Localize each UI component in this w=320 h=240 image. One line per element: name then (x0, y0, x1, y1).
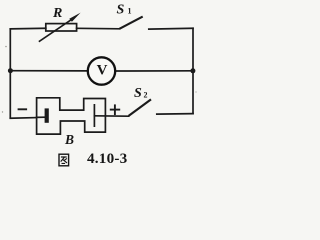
svg-text:4.10-3: 4.10-3 (87, 150, 128, 167)
paper background (0, 0, 200, 170)
rheostat arrow (39, 13, 81, 42)
wire top-middle segment (resistor to S1) (77, 27, 120, 30)
battery minus terminal label (18, 108, 28, 110)
wire cell1 internal stub (37, 116, 45, 118)
cell 1 short thick plate (45, 108, 49, 122)
wire cell2 plate to S2 (95, 115, 129, 117)
wire middle branch right (voltmeter to right rail) (115, 70, 193, 72)
switch S1 blade (119, 17, 142, 29)
node right junction (190, 68, 195, 73)
wire right vertical (192, 28, 194, 113)
battery plus terminal label (110, 104, 120, 115)
svg-text:R: R (52, 6, 62, 21)
resistor R (rheostat box) (46, 24, 77, 31)
svg-text:S: S (117, 2, 125, 17)
faint scan speckles (2, 46, 197, 113)
svg-text:S: S (134, 86, 142, 101)
svg-text:2: 2 (144, 90, 148, 99)
wire top-left segment (10, 27, 46, 30)
wire middle branch left (to voltmeter) (10, 70, 87, 72)
svg-text:B: B (64, 132, 74, 147)
wire top-right segment (S1 to corner) (149, 27, 193, 30)
wire bottom-left segment (10, 117, 36, 120)
switch S2 blade (129, 99, 151, 116)
voltmeter V (meter circle) (88, 57, 115, 84)
cell 2 long thin plate (93, 104, 95, 127)
svg-text:V: V (97, 62, 108, 78)
wire S2 right contact to corner (157, 113, 193, 116)
wire left vertical (9, 29, 11, 118)
caption character 图 (drawn) (59, 154, 69, 166)
svg-text:1: 1 (128, 7, 132, 16)
battery B dumbbell outline (two cell boxes joined by corridor) (37, 98, 106, 134)
node left junction (8, 68, 13, 73)
